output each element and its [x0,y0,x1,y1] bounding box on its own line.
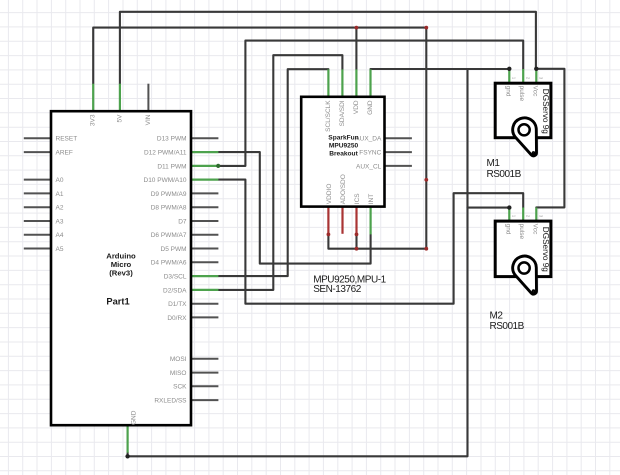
svg-text:gnd: gnd [504,224,511,235]
svg-text:GND: GND [367,100,374,115]
svg-text:A5: A5 [56,246,64,253]
svg-text:MOSI: MOSI [170,356,187,363]
svg-text:A4: A4 [56,232,64,239]
svg-text:M1: M1 [487,158,501,169]
svg-text:D4 PWM/A6: D4 PWM/A6 [151,260,187,267]
svg-text:ADO/SDO: ADO/SDO [340,174,347,204]
svg-text:D2/SDA: D2/SDA [163,287,187,294]
svg-text:2: 2 [526,215,531,218]
svg-text:1: 1 [512,215,517,218]
svg-text:Part1: Part1 [106,297,129,307]
svg-text:(Rev3): (Rev3) [109,269,133,278]
svg-text:A0: A0 [56,177,64,184]
svg-text:2: 2 [526,77,531,80]
svg-text:3: 3 [539,77,544,80]
svg-text:gnd: gnd [504,86,511,97]
svg-text:AUX_CL: AUX_CL [356,163,382,170]
svg-text:MPU9250: MPU9250 [329,143,359,150]
svg-text:RESET: RESET [56,136,78,143]
svg-text:A3: A3 [56,218,64,225]
svg-text:D9 PWM/A9: D9 PWM/A9 [151,191,187,198]
svg-text:SCL/SCLK: SCL/SCLK [325,100,332,132]
svg-text:INT: INT [368,194,375,205]
svg-text:DGServo 9g: DGServo 9g [541,227,550,272]
svg-text:D5 PWM: D5 PWM [161,246,187,253]
svg-text:5V: 5V [116,114,123,123]
svg-text:D12 PWM/A11: D12 PWM/A11 [144,150,187,157]
svg-text:VDD: VDD [353,100,360,114]
svg-text:D8 PWM/A8: D8 PWM/A8 [151,205,187,212]
svg-text:DGServo 9g: DGServo 9g [541,89,550,134]
svg-text:D13 PWM: D13 PWM [157,136,187,143]
svg-text:pulse: pulse [518,86,525,102]
svg-text:AREF: AREF [56,150,73,157]
svg-text:MISO: MISO [170,370,187,377]
svg-text:1: 1 [512,77,517,80]
svg-text:GND: GND [131,410,138,425]
svg-text:SEN-13762: SEN-13762 [313,284,362,295]
svg-text:3V3: 3V3 [90,114,97,126]
svg-text:A1: A1 [56,191,64,198]
svg-text:VIN: VIN [145,114,152,125]
svg-text:D3/SCL: D3/SCL [164,274,187,281]
svg-text:ICS: ICS [354,193,361,205]
svg-text:AUX_DA: AUX_DA [355,136,382,143]
svg-text:SCK: SCK [173,384,187,391]
svg-text:Vcc: Vcc [531,86,538,98]
svg-text:A2: A2 [56,205,64,212]
svg-text:pulse: pulse [518,224,525,240]
svg-text:D1/TX: D1/TX [168,301,187,308]
svg-text:Breakout: Breakout [329,151,358,158]
svg-text:RS001B: RS001B [490,321,525,332]
svg-text:D6 PWM/A7: D6 PWM/A7 [151,232,187,239]
svg-text:VDDIO: VDDIO [326,184,333,205]
svg-text:M2: M2 [490,310,504,321]
svg-text:FSYNC: FSYNC [359,150,381,157]
svg-text:D10 PWM/A10: D10 PWM/A10 [144,177,187,184]
svg-text:3: 3 [539,215,544,218]
svg-text:D0/RX: D0/RX [167,315,187,322]
svg-text:SparkFun: SparkFun [328,135,358,142]
svg-text:Vcc: Vcc [531,224,538,236]
svg-text:SDA/SDI: SDA/SDI [339,100,346,126]
svg-text:D7: D7 [178,218,187,225]
svg-text:RXLED/SS: RXLED/SS [154,398,187,405]
svg-text:RS001B: RS001B [487,169,522,180]
svg-text:D11 PWM: D11 PWM [157,163,186,170]
